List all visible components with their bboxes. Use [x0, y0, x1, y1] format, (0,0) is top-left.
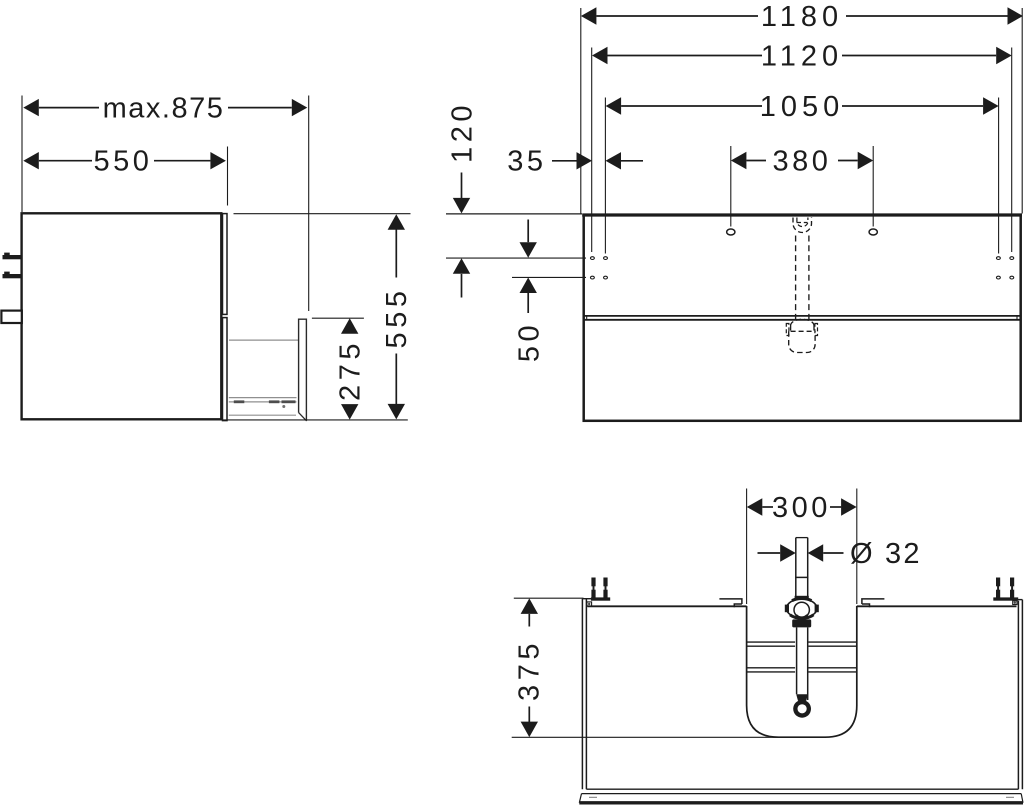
left mounting pin 2 — [603, 578, 608, 598]
dashed siphon trap dome — [791, 319, 814, 325]
front panel bottom edge (thick) — [579, 801, 1023, 804]
drawer divider line upper — [585, 315, 1020, 317]
dashed siphon trap cup — [789, 331, 815, 352]
dimension 375 — [514, 598, 546, 737]
drawer slide rail top line — [229, 397, 297, 399]
reference line hole row 1 — [446, 257, 586, 259]
TOP DIMENSIONS — [446, 1, 1023, 362]
dimension 300 — [747, 492, 857, 524]
left side edge double line — [581, 599, 583, 790]
flange inner circle — [794, 602, 809, 617]
dimension 120 — [447, 101, 479, 297]
svg-text:120: 120 — [447, 101, 479, 163]
front panel top line — [582, 793, 1022, 795]
pipe below nut — [796, 627, 798, 694]
dimension 550 extension line right — [227, 147, 229, 206]
svg-text:1050: 1050 — [760, 91, 845, 123]
fixing hole left on top surface — [727, 229, 735, 235]
svg-text:1180: 1180 — [761, 1, 843, 33]
extension line 1120 right — [1011, 48, 1013, 253]
cabinet body (side view) — [22, 213, 222, 419]
dimension 50 — [514, 220, 546, 363]
drawer slide rail bottom line — [229, 414, 296, 416]
left drawer clip — [719, 599, 742, 607]
wall rail bar 1 — [3, 255, 22, 259]
SIDE DIMENSIONS — [22, 92, 413, 420]
back edge right segment (top view) — [857, 605, 1017, 607]
fixing hole right on top surface — [869, 229, 877, 235]
dimension max.875 extension line left — [21, 96, 23, 213]
svg-text:35: 35 — [507, 145, 546, 177]
dimension 275 — [335, 318, 367, 419]
extension line 300 right — [856, 489, 858, 605]
svg-text:375: 375 — [514, 639, 546, 701]
dimension max.875 extension line right — [308, 96, 310, 312]
extension line 380 right — [872, 146, 874, 227]
svg-text:550: 550 — [94, 146, 153, 178]
dashed drain cup below top (front view) — [793, 218, 812, 233]
drawer front strip upper (side view) — [223, 214, 228, 315]
drawer slide rail mid line — [229, 401, 297, 403]
front panel side bevels — [579, 794, 581, 803]
svg-text:555: 555 — [381, 287, 413, 349]
right mounting pin plate — [993, 597, 1018, 600]
drain pipe (top view) — [795, 538, 797, 597]
reference line hole row 2 — [512, 276, 586, 278]
BOTTOM DIMENSIONS — [512, 489, 922, 738]
drawer divider line lower — [585, 319, 1020, 321]
FRONT VIEW GROUP — [582, 215, 1022, 421]
extension line 1120 left — [591, 48, 593, 253]
dimension 1180 — [581, 1, 1023, 33]
extension line 375 bottom — [512, 736, 790, 738]
svg-text:Ø 32: Ø 32 — [850, 538, 922, 570]
bottom reference line — [222, 419, 408, 421]
wall rail bar 2 — [3, 274, 22, 278]
dimension 1120 — [592, 40, 1012, 72]
right side edge double line — [1017, 601, 1019, 789]
svg-text:275: 275 — [335, 339, 367, 401]
cross rail 1 (double line) — [747, 642, 857, 646]
dashed drain pipe (front view) — [795, 236, 797, 323]
dimension 380 — [731, 145, 873, 177]
mounting holes right (front face) — [996, 257, 1000, 260]
dimension 550 — [23, 146, 226, 178]
hidden dashes near panel ends — [589, 796, 597, 798]
reference line top of open drawer for 275 — [312, 317, 364, 319]
drain nut (black) — [792, 619, 811, 627]
carcass front edge line — [586, 788, 1018, 790]
pulled-out drawer box top edge — [229, 339, 299, 341]
svg-text:50: 50 — [514, 321, 546, 362]
pulled-out drawer front panel (side view) — [299, 319, 307, 421]
extension line 1050 right — [998, 98, 1000, 254]
svg-text:max.875: max.875 — [103, 92, 225, 124]
cross rail 2 (double line) — [747, 668, 857, 672]
pipe dark band — [795, 596, 809, 599]
extension line 380 left — [730, 146, 732, 227]
console top edge (front view) — [582, 213, 1022, 216]
reference line console top left — [446, 213, 582, 215]
dimension 35 — [507, 145, 643, 177]
BOTTOM VIEW GROUP — [579, 538, 1023, 803]
dimension 555 — [381, 214, 413, 419]
right mounting pin 2 — [1010, 578, 1015, 598]
extension line 1180 left — [580, 8, 582, 214]
reference line top of cabinet for 555 — [234, 213, 411, 215]
right corner step — [1009, 599, 1023, 601]
right drawer clip — [862, 599, 885, 607]
extension line 1180 right — [1021, 8, 1023, 214]
dimension diameter 32 — [758, 538, 922, 570]
mounting holes left (front face) — [590, 257, 594, 260]
extension line 1050 left — [604, 98, 606, 254]
flange ears — [785, 605, 789, 613]
left mounting pin 1 — [591, 578, 596, 598]
dimension 1050 — [606, 91, 999, 123]
SIDE VIEW GROUP — [1, 213, 306, 421]
right mounting pin 1 — [996, 578, 1001, 598]
flange outer ellipse — [787, 599, 817, 618]
console body outline (front view) — [584, 215, 1021, 421]
dimension max.875 — [23, 92, 307, 124]
dashed siphon trap ears — [786, 324, 789, 336]
drawer front strip lower (side view) — [223, 318, 228, 421]
svg-text:380: 380 — [773, 145, 832, 177]
left corner step — [582, 598, 594, 600]
drain outlet — [796, 694, 808, 701]
left mounting pin plate — [591, 597, 610, 600]
extension line 300 left — [746, 489, 748, 605]
svg-text:1120: 1120 — [761, 40, 843, 72]
extension line 375 top — [514, 597, 584, 599]
back edge left segment (top view) — [588, 605, 747, 607]
basin cutout U shape — [747, 606, 857, 737]
lower wall bracket — [1, 311, 21, 323]
pipe collar — [795, 576, 808, 578]
svg-text:300: 300 — [772, 492, 831, 524]
